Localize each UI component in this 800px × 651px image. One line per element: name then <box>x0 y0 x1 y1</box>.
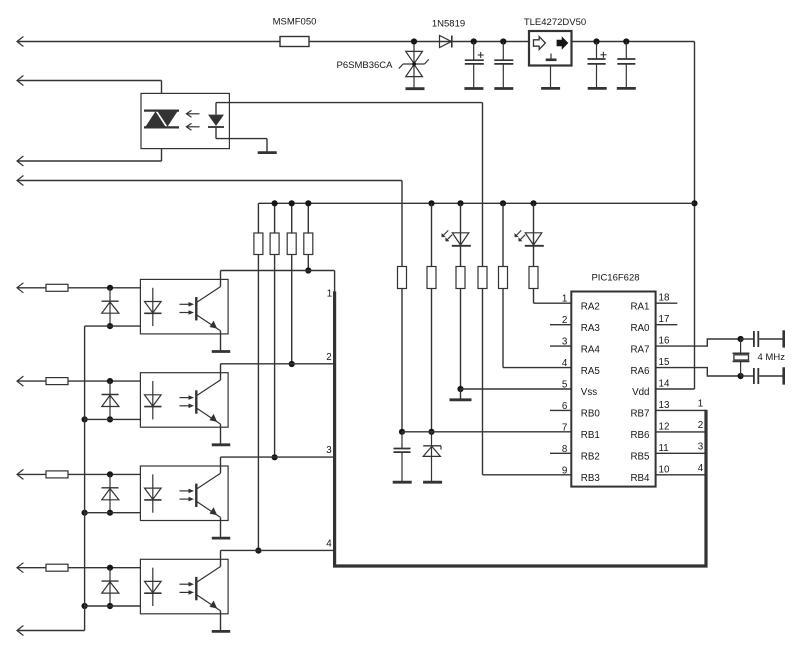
bus wire thick U-shape <box>335 291 706 566</box>
resistor R5 body <box>254 233 263 255</box>
resistor R8 pull-up top lead <box>307 203 309 233</box>
U3 LED <box>208 115 224 126</box>
ground Vss node <box>450 398 472 401</box>
U5 emitter lead <box>220 424 222 445</box>
wire U1 pin 3 stub <box>550 345 571 347</box>
ground C3 <box>588 87 607 90</box>
wire input channel 2 to optocoupler <box>68 380 153 382</box>
ground U4 <box>212 350 231 353</box>
wire U3 LED anode to RB3 resistor <box>215 103 217 115</box>
svg-text:11: 11 <box>659 443 669 454</box>
U4 phototransistor <box>195 297 197 320</box>
ground C1 <box>464 87 483 90</box>
svg-text:2: 2 <box>326 352 331 363</box>
resistor R5 bottom lead <box>257 255 259 551</box>
wire triac MT2 line with connector arrow <box>17 80 162 82</box>
U7 LED <box>152 568 154 606</box>
wire net VIN fuse to regulator input <box>309 41 529 43</box>
wire U1 pin 10 to bus <box>656 474 706 476</box>
resistor R10 bottom lead <box>431 289 433 432</box>
capacitor C6 crystal bottom <box>741 375 753 377</box>
junction channel 3 return line <box>82 510 88 516</box>
resistor R4 body <box>46 564 68 571</box>
resistor R6 bottom lead <box>274 255 276 458</box>
svg-text:3: 3 <box>698 441 704 452</box>
capacitor C5 crystal top <box>741 338 753 340</box>
U7 light arrows <box>180 583 190 585</box>
resistor R6 pull-up top lead <box>274 203 276 233</box>
resistor R1 body <box>46 284 68 291</box>
svg-text:4: 4 <box>562 358 568 369</box>
U6 phototransistor <box>195 484 197 507</box>
wire U1 pin 2 stub <box>550 324 571 326</box>
resistor R7 pull-up top lead <box>291 203 293 233</box>
capacitor C3 electrolytic <box>596 42 598 59</box>
wire return net with connector arrow <box>17 630 85 632</box>
junction crystal bottom node <box>738 373 744 379</box>
ground U5 <box>212 443 231 446</box>
junction channel 2 diode top <box>107 378 113 384</box>
resistor R6 body <box>270 233 279 255</box>
U2 internal ground symbol <box>550 54 552 60</box>
junction VCC rail <box>691 200 697 206</box>
wire input channel 1 to optocoupler <box>68 287 153 289</box>
junction node RB1 zener <box>428 429 434 435</box>
wire net VCC horizontal rail <box>258 202 694 204</box>
ground U3 LED <box>258 151 277 154</box>
resistor R7 body <box>287 233 296 255</box>
svg-text:RB4: RB4 <box>630 473 650 484</box>
U5 light arrows <box>180 397 190 399</box>
U3 coupling arrow upper <box>187 113 200 115</box>
resistor R14 top lead <box>533 246 535 267</box>
junction channel 4 return line <box>82 603 88 609</box>
resistor R9 bottom lead <box>401 289 403 432</box>
ground D7 <box>423 481 442 484</box>
zener diode D7 <box>431 432 433 482</box>
svg-text:RB6: RB6 <box>630 430 650 441</box>
junction C4 top <box>623 38 629 44</box>
svg-text:4 MHz: 4 MHz <box>758 352 786 363</box>
resistor R8 bottom lead <box>307 255 309 271</box>
wire input line RB1 with connector arrow <box>17 180 402 182</box>
wire U1 pin 15 RA6 to crystal <box>656 368 741 376</box>
svg-text:RA2: RA2 <box>581 301 600 312</box>
svg-text:4: 4 <box>698 463 704 474</box>
U4 LED <box>152 288 154 326</box>
junction Vss node <box>457 386 463 392</box>
wire input line RB1 vertical <box>401 181 403 267</box>
svg-text:4: 4 <box>326 538 332 549</box>
svg-text:Vdd: Vdd <box>632 387 649 398</box>
optocoupler U7 body <box>140 559 228 614</box>
svg-text:13: 13 <box>659 400 670 411</box>
junction channel 1 diode top <box>107 285 113 291</box>
junction node RB1 cap <box>399 429 405 435</box>
resistor R13 bottom lead to pin 4 <box>502 289 504 368</box>
svg-text:MSMF050: MSMF050 <box>273 17 317 28</box>
junction LED2 rail <box>530 200 536 206</box>
U3 triac symbol <box>144 109 179 111</box>
junction C1 top <box>471 38 477 44</box>
svg-text:1N5819: 1N5819 <box>432 19 465 30</box>
capacitor C9 filter <box>401 432 403 449</box>
wire U3 LED cathode to ground <box>215 127 217 139</box>
optotriac U3 body <box>141 93 229 148</box>
U4 collector lead <box>220 271 222 287</box>
diode D3 input clamp <box>109 474 111 512</box>
wire U3 LED drive vertical <box>482 103 484 267</box>
svg-text:15: 15 <box>659 357 670 368</box>
U4 light arrows <box>180 303 190 305</box>
svg-text:9: 9 <box>562 465 567 476</box>
wire return net vertical <box>84 326 86 630</box>
svg-text:RB0: RB0 <box>581 409 601 420</box>
junction R10 rail <box>428 200 434 206</box>
svg-text:2: 2 <box>698 420 703 431</box>
wire triac vertical through opto box <box>161 81 163 162</box>
resistor R12 bottom lead to pin 9 <box>482 289 484 475</box>
wire triac MT1 line with connector arrow <box>17 160 162 162</box>
svg-text:Vss: Vss <box>581 387 597 398</box>
U2 input arrow symbol <box>534 37 546 50</box>
ground TVS <box>406 87 425 90</box>
junction R8 rail <box>305 200 311 206</box>
junction channel 2 diode bottom <box>107 416 113 422</box>
resistor R8 body <box>304 233 313 255</box>
svg-text:7: 7 <box>562 422 567 433</box>
optocoupler U5 body <box>140 373 228 428</box>
svg-text:RB5: RB5 <box>630 452 650 463</box>
wire input channel 3 to optocoupler <box>68 473 153 475</box>
svg-text:18: 18 <box>659 293 670 304</box>
wire input channel 1 with connector arrow <box>17 287 46 289</box>
svg-text:TLE4272DV50: TLE4272DV50 <box>524 17 586 28</box>
junction R6 rail <box>272 200 278 206</box>
U7 collector lead <box>220 550 222 566</box>
wire net VIN left segment with connector arrow <box>17 41 280 43</box>
LED D9 emission arrows <box>516 230 521 235</box>
wire U1 pin 8 stub <box>550 452 571 454</box>
wire U1 pin 16 RA7 to crystal <box>656 339 741 346</box>
capacitor C4 <box>625 42 627 59</box>
wire U1 pin 6 stub <box>550 409 571 411</box>
ground C2 <box>494 87 513 90</box>
capacitor C2 <box>502 42 504 61</box>
ground U6 <box>212 537 231 540</box>
wire node RB1 to pin 7 <box>402 431 571 433</box>
resistor R9 body <box>398 267 407 289</box>
junction channel 3 diode bottom <box>107 510 113 516</box>
resistor R11 top lead <box>460 246 462 267</box>
wire Vss node to pin 5 <box>461 388 572 390</box>
PIC microcontroller U1 body <box>571 292 655 487</box>
wire U1 pin 14 Vdd to VCC <box>656 388 695 390</box>
wire U1 pin 17 stub <box>656 324 678 326</box>
wire channel 3 return segment <box>85 512 153 514</box>
TVS diode D5 P6SMB36CA <box>413 44 415 89</box>
svg-text:1: 1 <box>562 294 567 305</box>
fuse F1 MSMF050 body <box>280 37 309 47</box>
wire U1 pin 11 to bus <box>656 452 706 454</box>
junction channel 3 diode top <box>107 471 113 477</box>
resistor R3 body <box>46 471 68 478</box>
U6 LED <box>152 474 154 512</box>
diode D4 input clamp <box>109 568 111 606</box>
svg-text:RA1: RA1 <box>630 301 649 312</box>
wire U1 pin 18 stub <box>656 302 678 304</box>
wire input channel 3 with connector arrow <box>17 473 46 475</box>
LED D9 status indicator <box>533 203 535 246</box>
LED D8 emission arrows <box>443 230 448 235</box>
U2 output arrow symbol <box>557 36 569 50</box>
junction channel 4 diode top <box>107 565 113 571</box>
U6 light arrows <box>180 490 190 492</box>
resistor R2 body <box>46 378 68 385</box>
wire channel 4 return segment <box>85 605 153 607</box>
diode D6 1N5819 <box>440 36 452 48</box>
ground U7 <box>212 630 231 633</box>
junction channel 4 diode bottom <box>107 603 113 609</box>
resistor R10 top lead <box>431 203 433 266</box>
junction R13 rail <box>500 200 506 206</box>
svg-text:RA0: RA0 <box>630 323 650 334</box>
wire net VCC vertical down to Vdd <box>694 42 696 390</box>
svg-text:1: 1 <box>327 289 332 300</box>
junction R7 rail <box>289 200 295 206</box>
junction R5 to channel line <box>255 548 261 554</box>
resistor R11 bottom lead <box>460 289 462 390</box>
junction R8 to channel line <box>305 267 311 273</box>
svg-text:P6SMB36CA: P6SMB36CA <box>337 60 394 71</box>
U6 emitter lead <box>220 517 222 538</box>
svg-text:10: 10 <box>659 464 670 475</box>
optocoupler U4 body <box>140 279 228 334</box>
voltage regulator U2 TLE4272DV50 body <box>529 31 572 66</box>
resistor R7 bottom lead <box>291 255 293 365</box>
wire channel 1 return segment <box>85 325 153 327</box>
svg-text:RA6: RA6 <box>630 366 650 377</box>
wire input channel 4 to optocoupler <box>68 567 153 569</box>
U7 phototransistor <box>195 577 197 600</box>
junction crystal top node <box>738 336 744 342</box>
U7 emitter lead <box>220 611 222 632</box>
capacitor C1 electrolytic <box>473 42 475 61</box>
svg-text:RB3: RB3 <box>581 473 601 484</box>
junction C3 top <box>593 38 599 44</box>
ground C9 <box>393 481 412 484</box>
resistor R14 bottom lead to pin 1 <box>533 289 535 304</box>
U4 emitter lead <box>220 331 222 352</box>
wire channel 2 return segment <box>85 418 153 420</box>
junction LED1 rail <box>457 200 463 206</box>
U3 coupling arrow lower <box>187 126 200 128</box>
U5 LED <box>152 381 154 419</box>
junction C2 top <box>500 38 506 44</box>
U5 collector lead <box>220 364 222 380</box>
junction R6 to channel line <box>272 454 278 460</box>
resistor R14 body <box>529 267 538 289</box>
wire input channel 4 with connector arrow <box>17 567 46 569</box>
svg-text:5: 5 <box>562 380 568 391</box>
ground U2 <box>541 87 560 90</box>
wire net VCC regulator output to right corner <box>572 41 695 43</box>
svg-text:12: 12 <box>659 421 670 432</box>
junction R7 to channel line <box>289 361 295 367</box>
crystal Y1 4 MHz <box>740 339 742 353</box>
wire channel 1 bus entry corner <box>334 271 336 293</box>
wire U2 ground lead <box>550 66 552 89</box>
U6 collector lead <box>220 457 222 473</box>
wire channel 4 output to bus <box>221 549 335 551</box>
resistor R10 body <box>427 267 436 289</box>
svg-text:PIC16F628: PIC16F628 <box>591 272 639 283</box>
LED D8 power indicator <box>460 203 462 246</box>
diode D2 input clamp <box>109 381 111 419</box>
junction channel 2 return line <box>82 416 88 422</box>
wire channel 1 output to bus <box>221 270 335 272</box>
svg-text:3: 3 <box>326 445 332 456</box>
U5 phototransistor <box>195 390 197 413</box>
svg-text:RB1: RB1 <box>581 430 600 441</box>
optocoupler U6 body <box>140 466 228 521</box>
svg-text:RA3: RA3 <box>581 323 601 334</box>
junction TVS top <box>411 38 417 44</box>
resistor R13 body <box>499 267 508 289</box>
svg-text:RA5: RA5 <box>581 366 601 377</box>
svg-text:RB7: RB7 <box>630 409 649 420</box>
resistor R13 top lead <box>502 203 504 266</box>
wire U1 pin 13 to bus <box>656 409 706 411</box>
svg-text:RB2: RB2 <box>581 452 600 463</box>
junction channel 1 diode bottom <box>107 323 113 329</box>
svg-text:14: 14 <box>659 379 670 390</box>
wire channel 3 output to bus <box>221 456 335 458</box>
wire input channel 2 with connector arrow <box>17 380 46 382</box>
resistor R5 pull-up top lead <box>257 203 259 233</box>
svg-text:16: 16 <box>659 336 670 347</box>
ground C4 <box>617 87 636 90</box>
diode D1 input clamp <box>109 288 111 326</box>
resistor R12 body <box>478 267 487 289</box>
wire U1 pin 12 to bus <box>656 431 706 433</box>
wire channel 2 output to bus <box>221 363 335 365</box>
wire Vss node ground lead <box>460 389 462 400</box>
svg-text:RA7: RA7 <box>630 344 649 355</box>
svg-text:1: 1 <box>698 398 703 409</box>
svg-text:RA4: RA4 <box>581 344 601 355</box>
ground C6 end bar <box>782 367 785 384</box>
svg-text:17: 17 <box>659 314 670 325</box>
ground C5 end bar <box>782 330 785 347</box>
resistor R11 body <box>456 267 465 289</box>
